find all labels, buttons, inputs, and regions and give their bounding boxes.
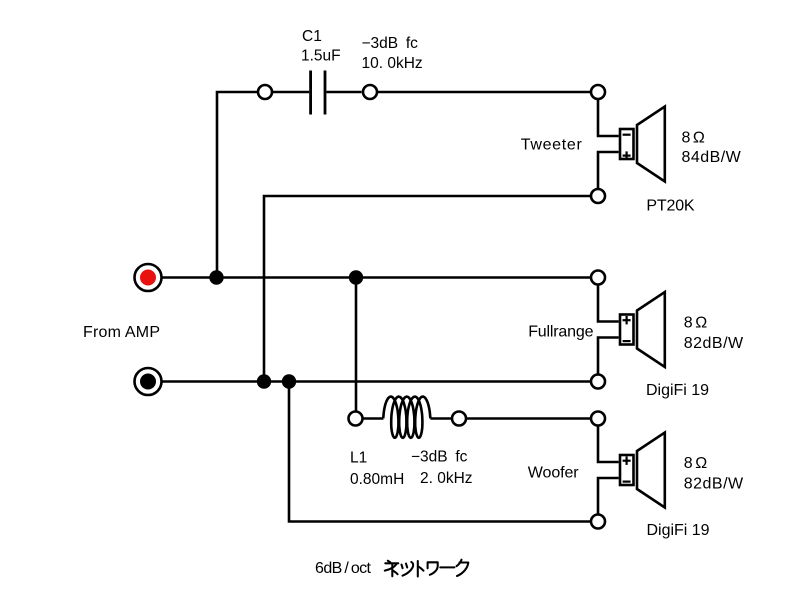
svg-text:8Ω: 8Ω [684,455,707,472]
svg-text:Fullrange: Fullrange [528,324,593,341]
svg-text:Woofer: Woofer [528,464,579,481]
svg-text:−3dB fc: −3dB fc [362,35,419,52]
svg-text:DigiFi 19: DigiFi 19 [647,522,710,539]
svg-text:1.5uF: 1.5uF [301,48,341,65]
svg-text:From AMP: From AMP [83,324,160,341]
svg-text:2. 0kHz: 2. 0kHz [420,470,473,487]
svg-text:6dB / oct: 6dB / oct [315,560,372,577]
svg-text:84dB/W: 84dB/W [682,149,742,166]
svg-text:−3dB fc: −3dB fc [411,449,468,466]
svg-text:8Ω: 8Ω [682,129,705,146]
svg-text:C1: C1 [302,28,322,45]
svg-text:82dB/W: 82dB/W [684,475,744,492]
svg-text:L1: L1 [350,450,367,467]
svg-text:82dB/W: 82dB/W [684,335,744,352]
svg-text:Tweeter: Tweeter [521,137,583,154]
svg-text:8Ω: 8Ω [684,314,707,331]
svg-text:PT20K: PT20K [646,198,695,215]
svg-text:DigiFi 19: DigiFi 19 [646,382,709,399]
svg-text:0.80mH: 0.80mH [350,471,404,488]
svg-text:10. 0kHz: 10. 0kHz [362,55,423,72]
